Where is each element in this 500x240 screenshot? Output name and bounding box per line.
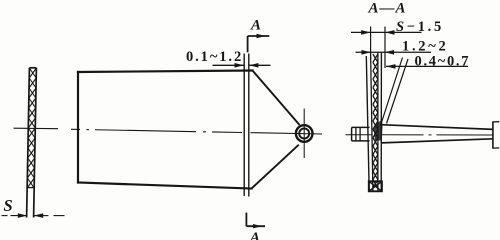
right view blade bar outline (366, 52, 381, 191)
hub boss left of bar (352, 127, 370, 140)
oblique extension leader lines for 0.4~0.7 (381, 58, 409, 126)
left view blade section bar outline (27, 68, 37, 218)
svg-text:A: A (250, 17, 261, 33)
tip circle inner (299, 129, 309, 139)
dimension 0.4~0.7 line and arrow (386, 64, 468, 69)
pointed tip upper diagonal (253, 71, 300, 126)
svg-text:A—A: A—A (368, 0, 407, 16)
section marker A bottom (246, 213, 265, 229)
right bar bottom end box (369, 181, 382, 191)
extension lines for S-1.5 (371, 27, 385, 69)
dark junction blob where blade edge meets tang (374, 120, 383, 141)
section marker A top (248, 34, 270, 53)
dimension 1.2~2 line and arrows (356, 50, 432, 55)
svg-text:0.1~1.2: 0.1~1.2 (186, 49, 243, 65)
main horizontal centerline (dash-dot) (71, 129, 322, 134)
dimension S-1.5 line and arrows (351, 30, 422, 35)
tip circle outer (296, 125, 313, 142)
right view horizontal centerline (346, 134, 494, 136)
tip circle vertical centerline (303, 109, 305, 159)
right bar crosshatch (373, 54, 378, 188)
dimension S line and arrows (2, 213, 65, 218)
svg-text:0.4~0.7: 0.4~0.7 (415, 54, 471, 70)
main body outline (rectangle) (78, 71, 253, 189)
dimension 0.1~1.2 line and arrows (213, 63, 271, 68)
double edge lines near tip (ground face) (244, 54, 249, 197)
left bar crosshatch (27, 68, 36, 188)
left view horizontal centerline (14, 127, 59, 130)
tang handle outline (381, 121, 499, 148)
pointed tip lower diagonal (252, 145, 299, 189)
svg-text:A: A (249, 230, 260, 240)
svg-text:S: S (4, 196, 13, 215)
